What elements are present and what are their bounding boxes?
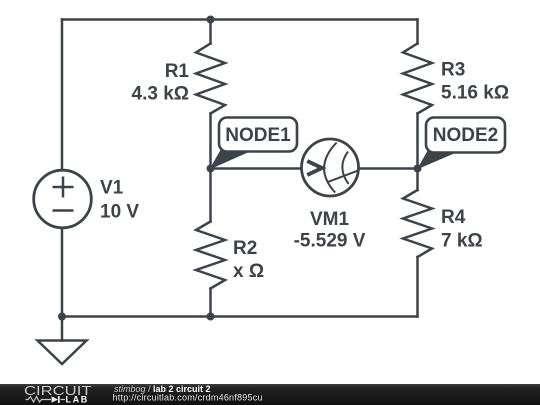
resistor R1 <box>196 44 225 114</box>
voltage source V1 <box>34 170 92 228</box>
resistor R4 <box>403 190 432 257</box>
wire left rail lower <box>61 227 64 317</box>
svg-text:http://circuitlab.com/crdm46nf: http://circuitlab.com/crdm46nf895cu <box>113 393 263 403</box>
wire R2 top lead <box>209 169 212 222</box>
svg-text:NODE2: NODE2 <box>433 125 498 146</box>
wire top rail <box>62 18 418 21</box>
junction node2 <box>414 165 422 173</box>
wire R4 top lead <box>416 169 419 191</box>
svg-text:R2: R2 <box>233 238 257 259</box>
wire bottom rail <box>62 315 418 318</box>
junction node1 <box>207 165 215 173</box>
wire R1 bottom lead <box>209 114 212 169</box>
node NODE2 <box>418 118 505 169</box>
wire right rail lower <box>416 257 419 317</box>
wire left rail upper <box>61 20 64 172</box>
resistor R2 <box>196 222 225 289</box>
wire VM1 to node2 <box>359 167 418 170</box>
wire R3 top lead <box>416 20 419 44</box>
svg-text:R1: R1 <box>165 61 190 82</box>
svg-text:R3: R3 <box>441 60 465 81</box>
svg-text:5.16 kΩ: 5.16 kΩ <box>441 83 509 104</box>
svg-text:LAB: LAB <box>66 394 89 404</box>
junction R2 bottom <box>207 313 215 321</box>
wire R3 bottom lead <box>416 114 419 169</box>
svg-text:10 V: 10 V <box>100 202 139 223</box>
wire R2 bottom lead <box>209 289 212 317</box>
node NODE1 <box>211 118 298 169</box>
svg-text:NODE1: NODE1 <box>225 125 291 146</box>
svg-text:VM1: VM1 <box>310 209 350 230</box>
svg-text:4.3 kΩ: 4.3 kΩ <box>132 84 190 105</box>
wire R1 top lead <box>209 20 212 44</box>
svg-text:V1: V1 <box>100 178 124 199</box>
ground <box>38 341 87 365</box>
junction top R1 <box>207 16 215 24</box>
svg-text:x Ω: x Ω <box>233 261 264 282</box>
junction ground <box>58 313 66 321</box>
CircuitLab logo <box>24 383 92 404</box>
svg-text:R4: R4 <box>441 207 466 228</box>
wire node1 to VM1 <box>211 167 302 170</box>
voltmeter VM1 <box>302 139 360 196</box>
svg-text:-5.529 V: -5.529 V <box>294 231 366 252</box>
svg-text:7 kΩ: 7 kΩ <box>441 231 483 252</box>
wire ground stem <box>61 317 64 341</box>
resistor R3 <box>403 44 432 114</box>
